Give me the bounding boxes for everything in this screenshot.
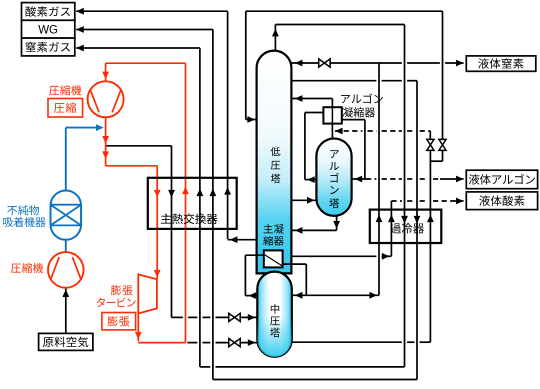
wire top loop y=11 to twin-valve line x=442.5 [246,11,443,161]
argon condenser symbol box [323,107,341,123]
box 酸素ガス [22,3,75,21]
wire dashed liquid-oxygen product line y=201 with subcooler riser x=391.4 [388,198,464,257]
label 圧縮機 (bottom compressor) [11,263,43,273]
box 膨張 (red label box) [102,313,136,330]
valve V3 (vertical) on column feed branch [439,139,446,150]
label 不純物吸着機器 (blue) [3,205,46,227]
wire red turbine exhaust (down, then right to x=185.5) [135,313,186,343]
wire riser x=430.4 through subcooler to MP column line y=342.4 [292,150,434,342]
wire nitrogen-gas line (column top to 窒素ガス box via subcooler and HX) [76,25,408,367]
wire LOX draw from column bottom y=256.3 [291,253,391,260]
adsorber vessel (capsule with X) [51,190,82,239]
wire argon condenser bottom drop to argon column [331,124,333,140]
wire compressed-air branch from compressor discharge y=145.8 [106,146,258,321]
label 圧縮機 (top compressor) [49,85,81,95]
wire liquid-nitrogen header y=63 with reflux arrow into column [291,60,463,67]
label 主凝縮器 (two lines) [263,224,284,245]
wire red compressor discharge to main heat exchanger [102,117,160,279]
box 窒素ガス [22,38,75,56]
wire argon condenser left loop to argon column y=179.6 [305,113,324,184]
valve V2 (vertical) on argon condenser branch [427,139,434,150]
wire argon column bottoms return y=230.4 [291,216,340,234]
label アルゴン塔 (vertical) [329,150,339,208]
wire turbine-exhaust branch into MP column y=343 [187,339,257,346]
wire LP-column left feed x=245.8 (from y=11 into column at y=119.5) [246,11,257,123]
wire dashed liquid-argon product line y=179 [352,176,464,183]
wire oxygen-gas line (low-pressure column bottom to 酸素ガス box) with HX riser [76,8,256,243]
wire raw-air feed with arrow into compressor [62,288,69,333]
vessel 低圧塔 (LP column) [257,51,292,274]
label 過冷器 [390,223,424,234]
wire argon column feed y=200.3 [291,197,316,204]
svg-text:WG: WG [38,24,58,36]
box 圧縮 (red label box) [48,99,83,118]
label 低圧塔 (vertical) [271,147,281,183]
wire dashed argon-condenser supply y=131 from twin valves [335,128,430,140]
expansion turbine symbol (red trapezoid) [138,274,157,313]
wire red compressor suction loop (HX riser x=185.5 / y=63 / into compressor) [102,63,189,342]
main condenser 主凝縮器 symbol (box with diagonal) [264,250,283,267]
label 膨張タービン [97,285,136,307]
label 主熱交換器 [161,213,218,224]
wire main-condenser right path split y=295.3 [283,264,379,299]
valve V5 on MP column second feed [229,339,240,347]
vessel アルゴン塔 (argon column) [316,139,351,216]
subcooler 過冷器 box [370,210,442,243]
compressor symbol (bottom 圧縮機) [48,252,84,288]
box 液体酸素 [466,192,537,210]
wire argon condenser right outlet down to liquid-argon junction [342,120,365,179]
valve V4 on MP column air feed [229,313,240,321]
wire WG line (waste gas loop: column right y=80.7 down subcooler to HX to WG box) [76,26,420,379]
box 液体窒素 [466,56,536,71]
box WG [22,20,75,38]
valve V1 on liquid-nitrogen reflux [319,59,330,67]
compressor symbol (top 圧縮機) [88,81,124,117]
wire blue adsorber outlet to main line [66,124,104,191]
heat exchanger 主熱交換器 box [148,178,237,229]
wire main-condenser left path into MP column [245,255,263,299]
wire blue adsorber inlet connector [65,239,67,252]
label 中圧塔 (vertical) [270,304,280,337]
wire rich-liquid riser x=379 (y63 to y295) [376,63,383,295]
vessel 中圧塔 (MP column) [257,272,292,357]
wire argon condenser top vapor line y=98.5 [291,95,332,107]
box 液体アルゴン [466,170,537,189]
box 原料空気 [39,333,93,350]
label アルゴン凝縮器 [341,94,383,118]
